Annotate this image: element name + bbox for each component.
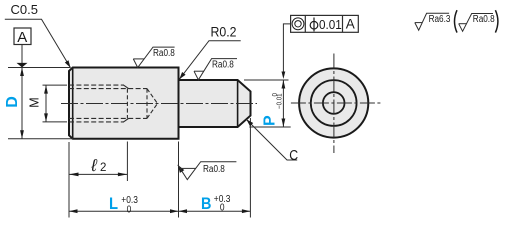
body chamfer edge line xyxy=(72,68,74,139)
dimension M line xyxy=(45,85,47,122)
end view outer circle xyxy=(299,68,368,137)
drill point cone (bottom) xyxy=(147,104,158,119)
svg-text:R0.2: R0.2 xyxy=(211,24,237,40)
leader R0.2 xyxy=(179,41,240,80)
leader C0.5 xyxy=(5,19,71,68)
svg-text:B: B xyxy=(201,195,211,213)
svg-text:0: 0 xyxy=(220,202,225,214)
dimension D extension bottom xyxy=(8,138,73,140)
svg-text:0.01: 0.01 xyxy=(319,17,342,32)
svg-text:D: D xyxy=(4,96,21,108)
dimension l2 line xyxy=(69,173,127,175)
svg-text:A: A xyxy=(17,29,27,46)
drill end hidden line xyxy=(146,89,148,119)
dimension B extension right (pin tip) xyxy=(249,118,251,218)
svg-text:Ra0.8: Ra0.8 xyxy=(203,162,225,174)
svg-text:−0.01: −0.01 xyxy=(276,93,284,109)
thread runout slant (bottom) xyxy=(124,118,129,122)
dimension P line xyxy=(282,80,284,127)
label C (pin chamfer) xyxy=(246,119,297,160)
dimension B line xyxy=(179,210,251,212)
svg-text:Ra0.8: Ra0.8 xyxy=(153,46,175,58)
dimension L line xyxy=(69,210,179,212)
svg-text:0: 0 xyxy=(127,204,132,216)
hidden pilot hole line (top) xyxy=(69,88,147,90)
svg-text:Ra0.8: Ra0.8 xyxy=(212,57,234,69)
close paren xyxy=(495,10,498,32)
hidden pilot hole line (bottom) xyxy=(69,117,147,119)
svg-text:Ra6.3: Ra6.3 xyxy=(429,12,451,24)
pin chamfer edge line xyxy=(237,80,239,127)
svg-text:L: L xyxy=(109,195,118,213)
dimension D line xyxy=(21,68,23,139)
svg-text:P: P xyxy=(262,115,279,126)
svg-text:2: 2 xyxy=(100,162,106,174)
datum stem xyxy=(21,45,23,64)
surface finish Ra0.8 on body xyxy=(133,58,144,60)
thread end hidden line xyxy=(126,89,128,119)
centerline (side view axis) xyxy=(61,103,257,105)
dimension L extension left (shared with l2) xyxy=(68,142,70,218)
datum triangle xyxy=(17,63,28,68)
datum box A xyxy=(14,28,31,45)
thread runout slant (top) xyxy=(124,85,129,89)
end view hole circle xyxy=(323,92,345,114)
surface note Ra0.8 (in parens) xyxy=(459,23,467,25)
surface note Ra6.3 (general) xyxy=(415,22,423,24)
hidden thread major line (bottom) xyxy=(69,121,124,123)
svg-text:ℓ: ℓ xyxy=(90,156,97,175)
svg-text:C0.5: C0.5 xyxy=(11,2,38,17)
svg-text:A: A xyxy=(346,17,355,32)
body (large cylinder, side view) xyxy=(69,68,179,139)
dimension P extension bottom xyxy=(249,126,290,128)
end view vertical centerline xyxy=(333,54,335,154)
end view horizontal centerline xyxy=(291,102,383,104)
svg-text:Ra0.8: Ra0.8 xyxy=(473,12,495,24)
svg-text:C: C xyxy=(289,147,298,163)
end view pin circle xyxy=(311,80,357,126)
svg-text:M: M xyxy=(28,97,42,107)
pin (small cylinder, side view) xyxy=(179,80,251,127)
dimension l2 extension right xyxy=(126,142,128,182)
surface finish Ra0.8 on shoulder (with arrow) xyxy=(178,165,185,173)
open paren xyxy=(455,10,458,32)
drill point cone (top) xyxy=(147,89,158,104)
frame leader xyxy=(283,24,290,73)
concentricity symbol xyxy=(292,18,304,30)
dimension P extension top xyxy=(244,79,289,81)
hidden thread major line (top) xyxy=(69,84,124,86)
dimension M extension top xyxy=(43,84,68,86)
dimension L/B extension middle (shoulder) xyxy=(178,142,180,218)
dimension D extension top xyxy=(8,67,70,69)
surface finish Ra0.8 on pin xyxy=(194,70,204,72)
phi 0.01 xyxy=(310,21,318,29)
concentricity tolerance frame xyxy=(291,15,359,32)
dimension M extension bottom xyxy=(43,121,68,123)
